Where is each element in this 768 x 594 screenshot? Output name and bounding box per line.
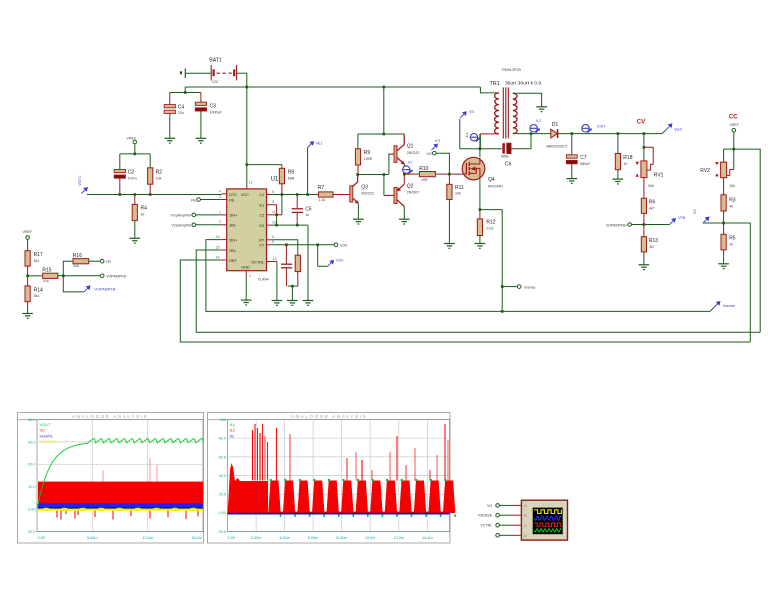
current probe bbox=[530, 125, 540, 133]
svg-text:10.0m: 10.0m bbox=[142, 536, 153, 540]
svg-text:10k: 10k bbox=[156, 176, 162, 180]
svg-text:2IN+: 2IN+ bbox=[229, 238, 238, 242]
svg-text:DTC: DTC bbox=[229, 193, 237, 197]
svg-text:R4: R4 bbox=[141, 206, 148, 212]
wire sense net bbox=[480, 210, 502, 312]
svg-text:4.00m: 4.00m bbox=[279, 536, 290, 540]
svg-text:10R: 10R bbox=[421, 178, 428, 182]
wire R15 to VOPAMPFB- terminal bbox=[58, 275, 100, 277]
wire node to REF bus bbox=[724, 223, 751, 342]
capacitor C2 bbox=[114, 169, 125, 178]
wire battery right lead bbox=[237, 72, 247, 74]
svg-text:D: D bbox=[524, 533, 527, 538]
svg-text:VSENSE: VSENSE bbox=[40, 439, 57, 444]
junction C7 bbox=[571, 132, 574, 135]
svg-text:9: 9 bbox=[272, 200, 274, 204]
terminal VREF CC bbox=[732, 128, 736, 132]
transistor Q1 2N2222 bbox=[389, 134, 405, 165]
ground under R4 bbox=[130, 238, 141, 243]
svg-text:R10: R10 bbox=[419, 166, 428, 172]
svg-text:CC: CC bbox=[729, 114, 738, 120]
wire RV1 to R6 bbox=[643, 178, 645, 199]
ground C7 bbox=[567, 179, 578, 184]
svg-text:C4: C4 bbox=[178, 104, 185, 110]
ground E2 bbox=[303, 301, 314, 306]
wire OCTRL to ground bbox=[276, 262, 278, 301]
svg-text:VREF: VREF bbox=[730, 123, 739, 127]
wire to VOPAMPFB+ terminal bbox=[632, 224, 644, 226]
wire REF bus bbox=[180, 260, 750, 342]
graph 2 axis labels bbox=[217, 418, 432, 540]
wire oscilloscope lead bbox=[500, 534, 513, 536]
svg-text:C7: C7 bbox=[580, 155, 587, 161]
svg-text:Q1: Q1 bbox=[407, 144, 414, 150]
wire C2 top bbox=[119, 154, 121, 170]
wire Vctrl probe bbox=[318, 245, 328, 266]
svg-text:Vout: Vout bbox=[674, 128, 683, 132]
svg-text:C: C bbox=[524, 523, 527, 528]
junction C6 secondary bbox=[530, 132, 533, 135]
svg-text:1k: 1k bbox=[729, 242, 733, 246]
svg-text:VG: VG bbox=[435, 139, 441, 143]
wire R5 to ground bbox=[723, 250, 725, 264]
svg-text:5.00m: 5.00m bbox=[87, 536, 98, 540]
svg-text:R12: R12 bbox=[486, 219, 495, 225]
junction R15 R16 bbox=[62, 275, 65, 278]
U1 right pin stubs bbox=[267, 194, 272, 196]
ground under C4 bbox=[165, 138, 176, 143]
wire VFB probe bbox=[644, 224, 670, 226]
oscilloscope input terminal VG bbox=[496, 504, 500, 508]
junction VCC bus / driver supply bbox=[383, 86, 386, 89]
svg-text:R2: R2 bbox=[156, 169, 163, 175]
voltage probe bbox=[666, 124, 672, 130]
svg-text:IRFZ44N: IRFZ44N bbox=[488, 185, 503, 189]
junction E2 bbox=[275, 224, 278, 227]
svg-text:5: 5 bbox=[272, 240, 274, 244]
svg-text:4k: 4k bbox=[729, 204, 733, 208]
svg-text:51k: 51k bbox=[43, 279, 49, 283]
junction driver top bbox=[383, 133, 386, 136]
wire drain bbox=[479, 134, 481, 158]
svg-text:0.03: 0.03 bbox=[486, 227, 493, 231]
current probe bbox=[470, 134, 480, 142]
graph 1 plot area bbox=[37, 420, 203, 532]
capacitor C3 bbox=[195, 102, 206, 111]
svg-text:REF: REF bbox=[229, 259, 237, 263]
svg-text:FB: FB bbox=[191, 198, 196, 202]
wire driver top bbox=[358, 133, 404, 135]
wire RV2 top lead bbox=[723, 149, 725, 162]
svg-text:VREF: VREF bbox=[127, 136, 137, 140]
svg-text:60.0: 60.0 bbox=[219, 455, 226, 459]
junction R9 Q3 collector bbox=[356, 173, 359, 176]
svg-text:680uF: 680uF bbox=[580, 162, 591, 166]
wire C2 bottom lead bbox=[119, 178, 121, 194]
wire R17 to R14 bbox=[27, 266, 29, 286]
svg-text:VD: VD bbox=[469, 110, 475, 114]
wire RT to timing resistor bbox=[272, 240, 298, 255]
resistor R11 bbox=[447, 184, 452, 199]
svg-text:IL2: IL2 bbox=[230, 428, 236, 433]
diode D1 MBR20100CT bbox=[551, 129, 558, 138]
svg-text:680p: 680p bbox=[501, 155, 509, 159]
svg-text:IL1: IL1 bbox=[465, 133, 469, 138]
svg-text:5k1: 5k1 bbox=[34, 294, 40, 298]
resistor R12 bbox=[477, 219, 482, 236]
resistor R18 bbox=[615, 154, 620, 170]
resistor R13 bbox=[641, 237, 646, 252]
ground timing network bbox=[287, 301, 298, 306]
svg-text:-10.0: -10.0 bbox=[27, 530, 36, 534]
U1 left pin stubs bbox=[222, 193, 227, 195]
wire C5 top lead bbox=[296, 195, 298, 209]
voltage probe VE1 bbox=[308, 142, 314, 148]
svg-text:6.00m: 6.00m bbox=[308, 536, 319, 540]
svg-text:0.00: 0.00 bbox=[219, 511, 226, 515]
svg-text:FB: FB bbox=[106, 260, 111, 264]
junction Q2 base drop bbox=[383, 173, 386, 176]
graph 1 trace VC (red band) bbox=[38, 482, 203, 510]
wire VREF down bbox=[733, 132, 735, 149]
resistor R9 bbox=[355, 149, 360, 165]
svg-text:VS: VS bbox=[693, 209, 697, 214]
ground Q2 bbox=[399, 219, 410, 224]
oscilloscope trace D green bbox=[534, 529, 561, 532]
resistor R7 bbox=[319, 192, 334, 197]
wire to R16 bbox=[63, 261, 73, 276]
chart: analogue analysis graph 2 frame bbox=[208, 413, 451, 544]
voltage probe Vsense bbox=[714, 302, 720, 308]
junction VCC / R8 bbox=[246, 163, 249, 166]
svg-text:VC: VC bbox=[40, 428, 46, 433]
svg-text:C1: C1 bbox=[259, 193, 264, 197]
ground R12 bbox=[475, 244, 486, 249]
graph 1 x axis ticks bbox=[37, 531, 203, 533]
resistor R15 bbox=[43, 273, 58, 278]
svg-text:10.0m: 10.0m bbox=[365, 536, 376, 540]
junction CT cap bbox=[285, 244, 288, 247]
svg-text:CT: CT bbox=[259, 244, 265, 248]
wire C4 to ground bbox=[169, 113, 171, 138]
wire GND pin to ground bbox=[245, 277, 247, 300]
ground R5 bbox=[718, 264, 729, 269]
wire secondary top to ground bbox=[513, 93, 542, 106]
junction R4 top bbox=[134, 193, 137, 196]
wire source to R12 bbox=[479, 180, 481, 210]
wire E2 line bbox=[272, 224, 309, 226]
terminal VREF upper bbox=[133, 140, 137, 144]
wire R13 top bbox=[643, 225, 645, 237]
svg-text:68R: 68R bbox=[288, 176, 295, 180]
wire VCC bus bbox=[185, 86, 480, 88]
svg-text:R15: R15 bbox=[42, 267, 51, 273]
svg-text:40.0: 40.0 bbox=[219, 474, 226, 478]
svg-text:2.00m: 2.00m bbox=[251, 536, 262, 540]
oscilloscope input terminal D bbox=[496, 534, 500, 538]
wire C7 top bbox=[571, 134, 573, 155]
wire CT line to Vctrl bbox=[272, 244, 335, 246]
junction RV2 top bbox=[733, 148, 736, 151]
svg-text:VCTRL: VCTRL bbox=[480, 524, 492, 528]
current probe bbox=[582, 125, 592, 133]
svg-text:FB: FB bbox=[229, 198, 234, 202]
svg-text:IG: IG bbox=[408, 160, 412, 164]
junction RV1 wiper tie bbox=[643, 146, 646, 149]
svg-text:R8: R8 bbox=[288, 170, 295, 176]
junction R2 bottom bbox=[149, 193, 152, 196]
wire C1 to C2 tie bbox=[281, 195, 283, 215]
svg-text:R14: R14 bbox=[34, 287, 43, 293]
graph 2 legend bbox=[230, 422, 236, 439]
svg-text:VOPAMPFB-: VOPAMPFB- bbox=[106, 275, 128, 279]
junction driver output node bbox=[403, 173, 406, 176]
svg-text:11: 11 bbox=[272, 210, 276, 214]
junction Vctrl probe bbox=[316, 244, 319, 247]
svg-text:IL2: IL2 bbox=[536, 119, 541, 123]
graph 2 gridlines bbox=[228, 420, 450, 532]
wire C4 C3 top bbox=[170, 92, 201, 94]
svg-text:CV: CV bbox=[637, 120, 645, 126]
svg-text:R16: R16 bbox=[73, 253, 82, 259]
svg-text:B: B bbox=[524, 513, 527, 518]
wire VREF down bbox=[134, 144, 136, 154]
wire C3 to ground bbox=[200, 111, 202, 138]
svg-text:C2: C2 bbox=[128, 169, 135, 175]
wire R16 to FB terminal bbox=[89, 260, 101, 262]
svg-text:13: 13 bbox=[273, 257, 277, 261]
terminal VOPAMPFB+ bbox=[628, 223, 632, 227]
wire oscilloscope lead bbox=[500, 514, 513, 516]
wire R18 top bbox=[617, 134, 619, 154]
graph 2 IL1 spikes bbox=[253, 424, 449, 481]
potentiometer RV1 adjust arrows bbox=[636, 162, 639, 165]
wire driver mid bbox=[358, 174, 389, 176]
wire VCC pin bbox=[246, 165, 248, 185]
svg-text:3: 3 bbox=[219, 195, 221, 199]
wire C5 bottom lead bbox=[296, 212, 298, 225]
svg-text:80.0: 80.0 bbox=[219, 437, 226, 441]
wire primary top bbox=[480, 87, 499, 93]
terminal VOPAMPFB- lower bbox=[100, 274, 104, 278]
wire to R15 bbox=[28, 275, 43, 277]
wire C4 top lead bbox=[169, 93, 171, 106]
resistor R8 bbox=[279, 168, 284, 184]
resistor R3 bbox=[721, 195, 726, 211]
svg-text:8.00m: 8.00m bbox=[336, 536, 347, 540]
wire Vout probe stub bbox=[662, 130, 666, 134]
junction sense bus bbox=[501, 310, 504, 313]
wire R5 top bbox=[723, 223, 725, 234]
chart: analogue analysis graph 1 frame bbox=[18, 413, 204, 544]
svg-text:15: 15 bbox=[216, 245, 220, 249]
wire R4 top lead bbox=[134, 195, 136, 205]
oscilloscope input terminal VSENSE bbox=[496, 513, 500, 517]
svg-text:VOTC: VOTC bbox=[78, 175, 82, 186]
resistor RT timing bbox=[295, 255, 300, 271]
svg-text:10.0: 10.0 bbox=[28, 485, 35, 489]
junction R12 top bbox=[479, 208, 482, 211]
terminal Vctrl bbox=[334, 243, 338, 247]
wire R14 to ground bbox=[27, 302, 29, 314]
svg-text:D1: D1 bbox=[552, 122, 559, 128]
svg-text:TRAN-2P2S: TRAN-2P2S bbox=[501, 68, 521, 72]
potentiometer RV2 bbox=[721, 162, 727, 178]
svg-text:VOPAMPFB+: VOPAMPFB+ bbox=[606, 223, 628, 227]
svg-text:2N2907: 2N2907 bbox=[407, 191, 420, 195]
wire GND pin stub bbox=[245, 271, 247, 277]
graph 1 axis labels bbox=[27, 418, 202, 540]
svg-text:R7: R7 bbox=[318, 185, 325, 191]
wire R11 to ground bbox=[448, 200, 450, 244]
svg-text:30uH 30uH k 0.9: 30uH 30uH k 0.9 bbox=[505, 80, 541, 86]
svg-text:130R: 130R bbox=[364, 157, 373, 161]
op-amp U1 TL494 body bbox=[227, 189, 267, 271]
wire battery to VCC bus bbox=[246, 73, 248, 87]
capacitor C6 bbox=[504, 143, 511, 153]
wire Q1 emitter to Q2 emitter bbox=[403, 164, 405, 184]
svg-text:MBR20100CT: MBR20100CT bbox=[546, 144, 567, 148]
wire R12 to ground bbox=[479, 236, 481, 244]
wire R10 to Q4 gate bbox=[435, 173, 462, 175]
wire bus drop to C3 C4 bbox=[184, 87, 186, 93]
graph 2 plot area bbox=[228, 420, 450, 532]
wire C1 line bbox=[272, 194, 319, 196]
wire Vsense probe stub bbox=[710, 308, 714, 312]
svg-text:1K: 1K bbox=[623, 162, 628, 166]
oscilloscope channel letters bbox=[524, 503, 527, 538]
wire VG terminal to gate bbox=[436, 153, 449, 174]
resistor R4 bbox=[132, 204, 137, 220]
graph 2 trace IG blue baseline bbox=[228, 513, 450, 515]
wire C2 to E2 tie bbox=[276, 215, 278, 225]
wire oscilloscope pin bbox=[512, 504, 521, 506]
wire E2 to ground bbox=[307, 225, 309, 300]
wire R9 bottom lead bbox=[357, 165, 359, 175]
svg-text:Q3: Q3 bbox=[361, 185, 368, 191]
svg-text:100: 100 bbox=[220, 418, 226, 422]
oscilloscope trace B blue bbox=[534, 516, 561, 520]
terminal FB lower bbox=[100, 259, 104, 263]
wire C7 to ground bbox=[571, 164, 573, 179]
svg-text:0.00: 0.00 bbox=[228, 536, 235, 540]
wire drain to C6 bbox=[480, 148, 502, 150]
oscilloscope input terminal VCTRL bbox=[496, 523, 500, 527]
transformer TR1 core bbox=[503, 87, 508, 138]
junction Vsense terminal bbox=[501, 285, 504, 288]
wire 2IN- bus bbox=[196, 250, 760, 332]
voltage probe Vctrl bbox=[328, 260, 334, 266]
svg-text:VG: VG bbox=[427, 152, 432, 156]
voltage probe bbox=[81, 188, 87, 194]
wire R4 to ground bbox=[134, 221, 136, 239]
terminal VOpAmpFB+ bbox=[192, 213, 196, 217]
svg-text:40.0: 40.0 bbox=[28, 418, 35, 422]
svg-text:4k7: 4k7 bbox=[649, 245, 655, 249]
svg-text:1.3k: 1.3k bbox=[319, 198, 326, 202]
ground Q3 bbox=[353, 219, 364, 224]
svg-text:C3: C3 bbox=[210, 103, 217, 109]
graph 1 trace VOUT (green curve) bbox=[37, 438, 203, 509]
svg-text:50k: 50k bbox=[648, 184, 654, 188]
svg-text:RT: RT bbox=[259, 238, 265, 242]
wire R10 left lead bbox=[404, 173, 419, 175]
svg-text:8: 8 bbox=[272, 190, 274, 194]
svg-text:VGATE: VGATE bbox=[40, 433, 54, 438]
wire oscilloscope pin bbox=[512, 524, 521, 526]
svg-text:E2: E2 bbox=[260, 224, 265, 228]
svg-text:2: 2 bbox=[219, 220, 221, 224]
capacitor C7 bbox=[566, 155, 577, 164]
wire output rail bbox=[558, 133, 662, 135]
svg-text:VOpAmpFB+: VOpAmpFB+ bbox=[171, 213, 192, 217]
junction C2 bottom bbox=[119, 193, 122, 196]
wire E1 to C2 bbox=[276, 205, 278, 215]
wire driver supply drop bbox=[383, 87, 385, 134]
svg-text:16: 16 bbox=[216, 235, 220, 239]
svg-text:1n: 1n bbox=[305, 213, 309, 217]
svg-text:4k7: 4k7 bbox=[649, 206, 655, 210]
terminal VREF lower bbox=[26, 236, 30, 240]
wire VOPAMPFB- probe bbox=[63, 276, 84, 292]
terminal VG bbox=[433, 151, 437, 155]
svg-text:30.0: 30.0 bbox=[28, 440, 35, 444]
junction C4/C3 top bbox=[184, 91, 187, 94]
resistor R14 bbox=[25, 286, 30, 302]
wire Q3 emitter to ground bbox=[357, 204, 359, 219]
svg-text:12.0m: 12.0m bbox=[394, 536, 405, 540]
svg-text:U1: U1 bbox=[271, 176, 279, 182]
svg-text:51k: 51k bbox=[73, 264, 79, 268]
svg-text:2N2222: 2N2222 bbox=[407, 151, 420, 155]
svg-text:TL494: TL494 bbox=[258, 278, 269, 282]
resistor R2 bbox=[148, 168, 153, 184]
svg-text:VFB: VFB bbox=[678, 216, 686, 220]
wire R11 top lead bbox=[448, 174, 450, 184]
wire VREF to R17 bbox=[27, 239, 29, 250]
resistor R5 bbox=[721, 234, 726, 250]
graph 1 trace VC faint streaks bbox=[103, 458, 157, 482]
transistor Q2 2N2907 bbox=[384, 184, 404, 206]
ground R14 bbox=[22, 314, 33, 319]
ground OCTRL bbox=[272, 301, 283, 306]
potentiometer RV2 adjust arrows bbox=[715, 162, 718, 165]
svg-text:R13: R13 bbox=[649, 238, 658, 244]
wire R12 top lead bbox=[479, 210, 481, 219]
svg-text:R3: R3 bbox=[729, 197, 736, 203]
svg-text:C2: C2 bbox=[259, 214, 264, 218]
svg-text:E1: E1 bbox=[260, 204, 265, 208]
oscilloscope body bbox=[521, 500, 567, 540]
wire R6 bottom bbox=[643, 213, 645, 224]
svg-text:RV1: RV1 bbox=[654, 173, 664, 179]
svg-text:R17: R17 bbox=[34, 252, 43, 258]
wire R3 bottom bbox=[723, 211, 725, 223]
svg-text:R5: R5 bbox=[729, 235, 736, 241]
terminal Vsense bbox=[517, 285, 521, 289]
svg-text:C6: C6 bbox=[505, 162, 512, 168]
svg-text:IL1: IL1 bbox=[230, 422, 236, 427]
wire C3 top lead bbox=[200, 93, 202, 103]
junction C5 bottom bbox=[296, 224, 299, 227]
svg-text:TR1: TR1 bbox=[490, 81, 500, 87]
voltage probe VD bbox=[460, 112, 466, 118]
graph 1 trace VC negative spikes bbox=[57, 510, 198, 520]
wire 2IN+ to Vsense bus bbox=[206, 240, 710, 312]
junction RV1 bbox=[643, 132, 646, 135]
junction VCC bus / battery bbox=[246, 86, 249, 89]
svg-text:VE1: VE1 bbox=[316, 142, 323, 146]
